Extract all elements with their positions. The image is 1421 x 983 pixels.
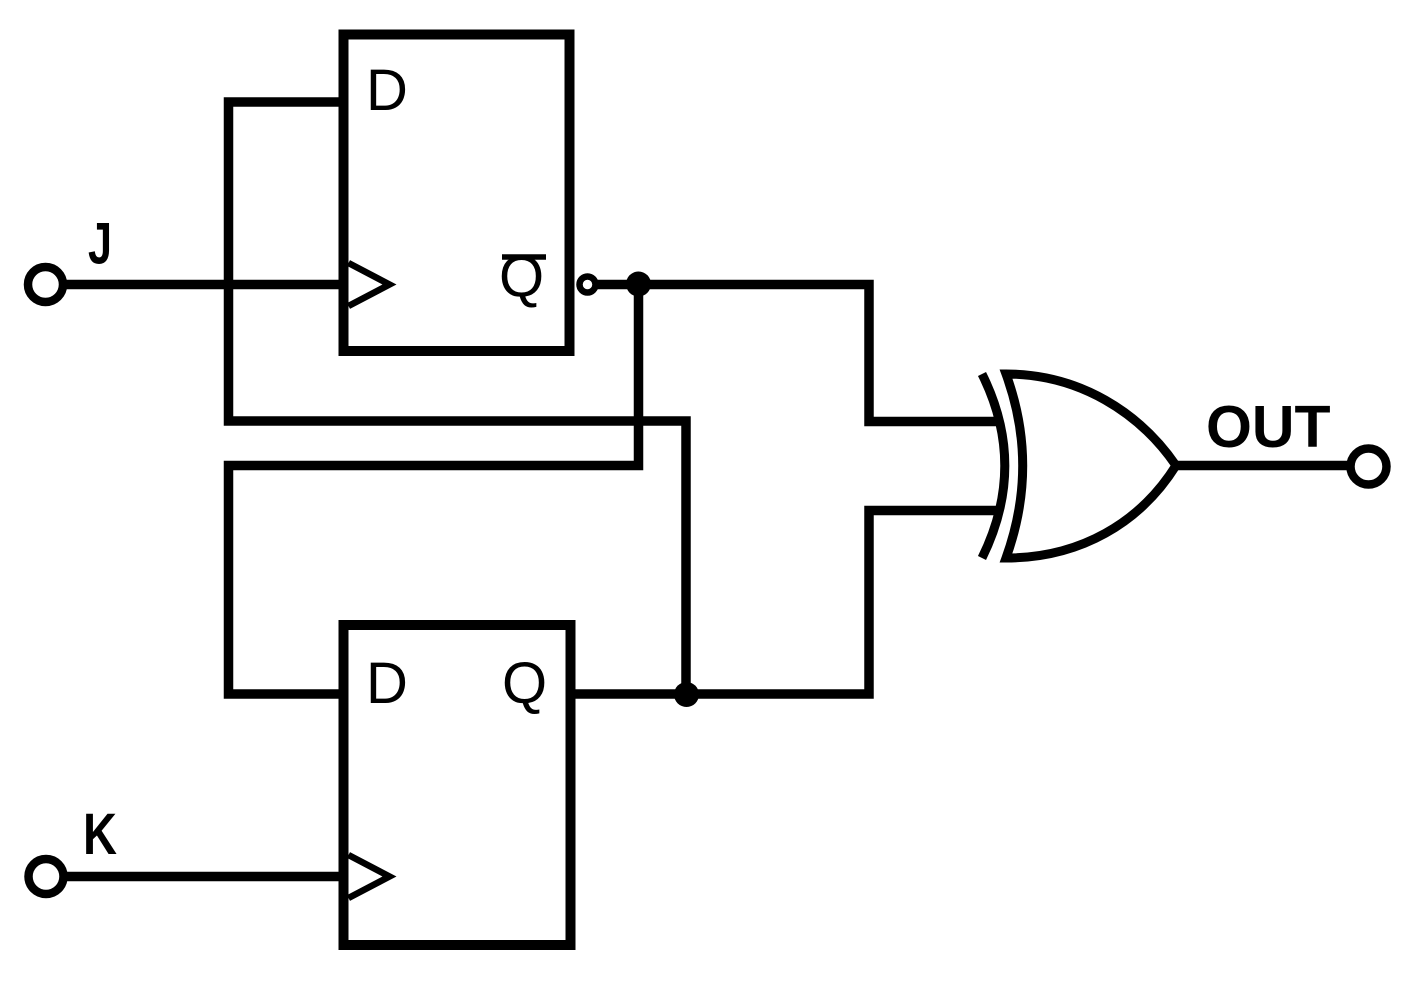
wire: K input to U2 clock bbox=[62, 872, 348, 882]
node B junction dot (U2 Q net) bbox=[674, 682, 699, 707]
flip-flop U2 clock triangle bbox=[349, 855, 390, 898]
overbar of Qbar (U1) bbox=[502, 254, 546, 260]
svg-text:D: D bbox=[366, 58, 408, 123]
wire: U2 Q output to XOR bottom input bbox=[570, 511, 998, 695]
node A junction dot (U1 Qbar net) bbox=[626, 272, 651, 297]
svg-text:OUT: OUT bbox=[1206, 394, 1331, 460]
wire: XOR output to OUT terminal bbox=[1176, 461, 1351, 471]
inversion bubble on U1 Qbar pin bbox=[580, 277, 596, 293]
terminal OUT circle bbox=[1351, 449, 1387, 485]
svg-text:J: J bbox=[88, 212, 112, 277]
XOR gate U3 input-side extra arc bbox=[982, 374, 1005, 558]
terminal K circle bbox=[29, 859, 64, 894]
svg-text:D: D bbox=[366, 651, 408, 716]
svg-text:K: K bbox=[83, 802, 117, 867]
flip-flop U1 body bbox=[344, 35, 570, 352]
flip-flop U2 body bbox=[344, 625, 571, 945]
wire: node A down, mid horizontal, down to U2 D input bbox=[229, 285, 639, 695]
XOR gate U3 body bbox=[1006, 374, 1176, 558]
wire: J input to U1 clock bbox=[62, 280, 348, 290]
terminal J circle bbox=[28, 267, 63, 302]
flip-flop U1 clock triangle bbox=[349, 263, 390, 306]
wire: U1 Qbar output to XOR top input bbox=[594, 285, 999, 422]
wire: U2 Q feedback to U1 D (via left vertical and mid horizontal, down to node B) bbox=[229, 102, 687, 695]
svg-text:Q: Q bbox=[502, 651, 547, 716]
